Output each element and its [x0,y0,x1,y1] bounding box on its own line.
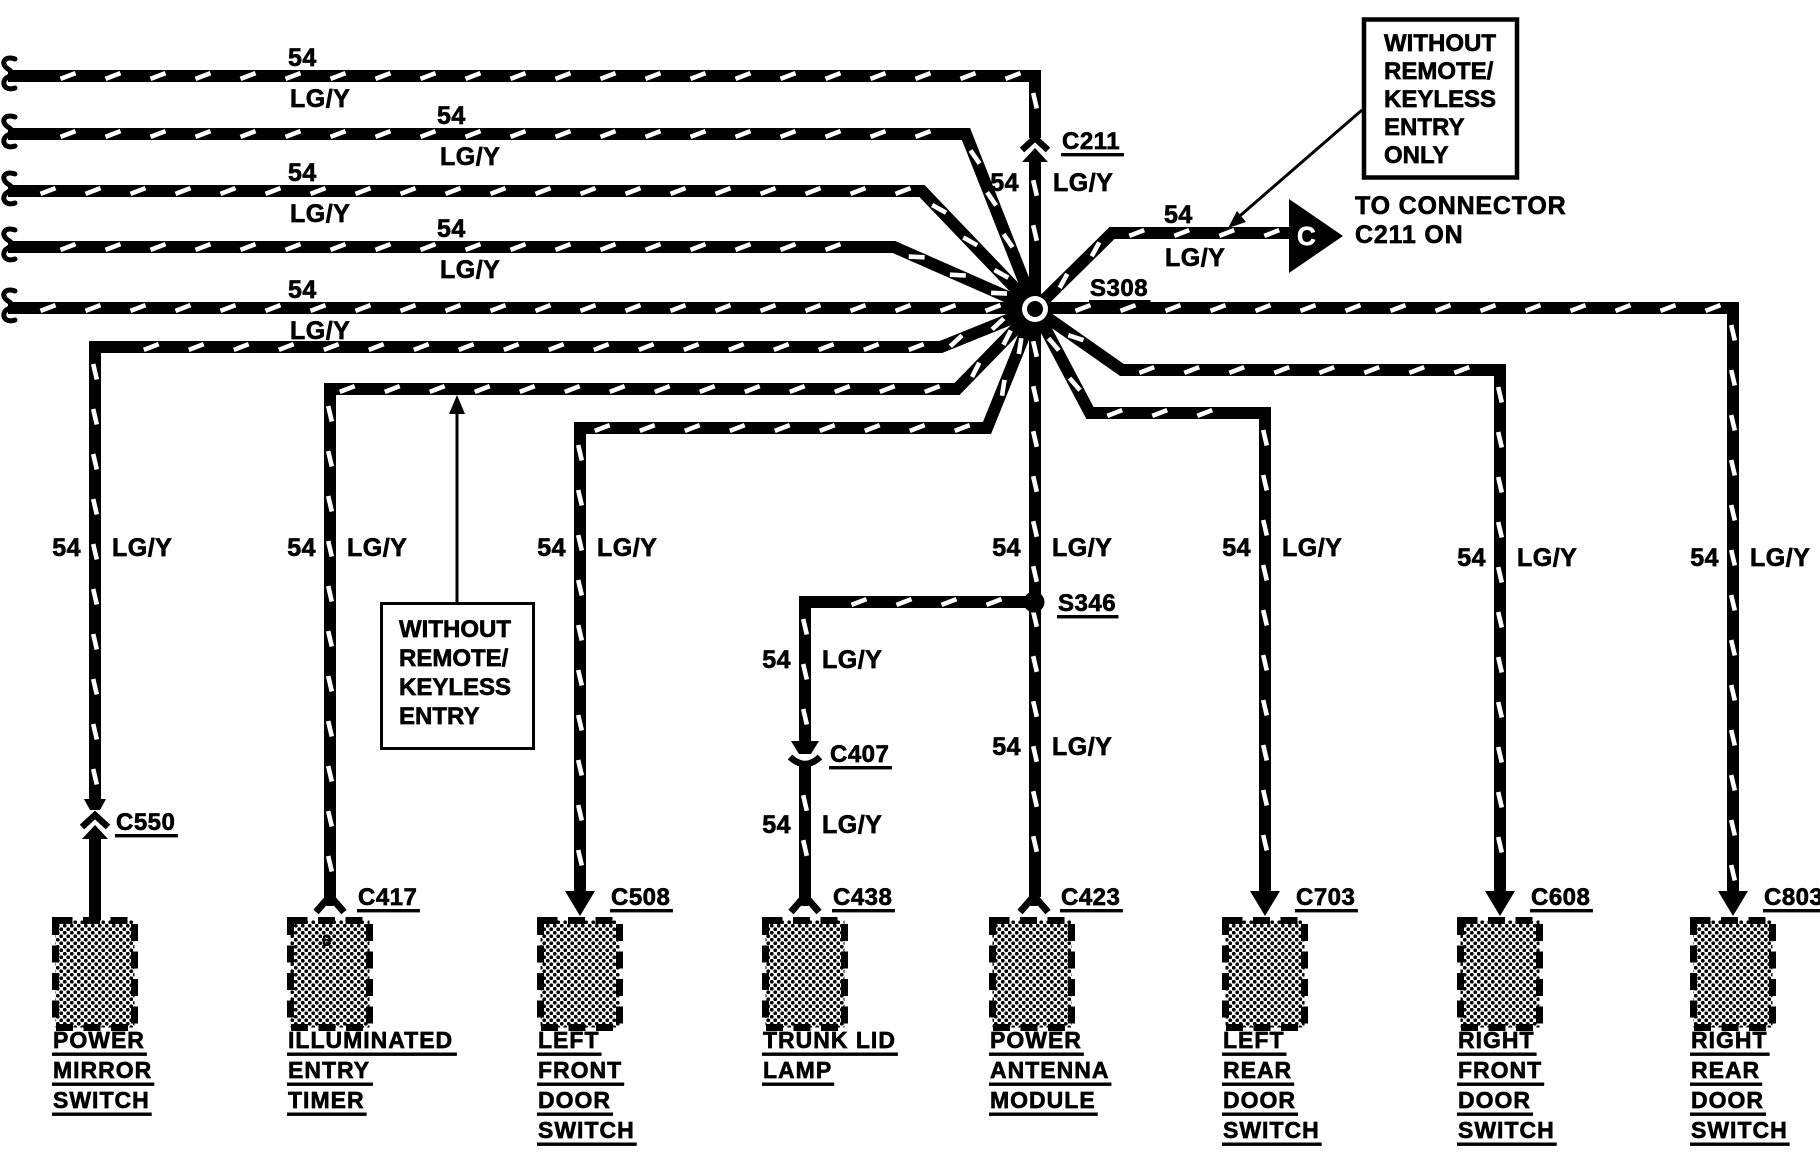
connector C608 label [1530,884,1593,912]
svg-text:C608: C608 [1531,884,1590,911]
component box: ILLUMINATED ENTRY TIMER [291,921,370,1028]
svg-text:MIRROR: MIRROR [53,1057,152,1083]
svg-text:POWER: POWER [53,1027,145,1053]
connector C211 (in-line, double chevron) [1022,138,1048,162]
svg-text:S346: S346 [1058,590,1116,617]
svg-text:54: 54 [537,534,566,562]
svg-text:KEYLESS: KEYLESS [399,674,511,701]
wire: vertical segment below C211 down to splice S308 [1033,158,1037,309]
connector C508 (arrow into box) [565,891,595,916]
pin number 8 on illuminated entry timer [322,931,331,950]
svg-text:LG/Y: LG/Y [1517,544,1577,572]
svg-text:C550: C550 [116,809,175,836]
svg-text:LG/Y: LG/Y [1282,534,1342,562]
svg-text:LG/Y: LG/Y [1053,169,1113,197]
svg-text:C211 ON: C211 ON [1355,221,1463,249]
svg-text:LG/Y: LG/Y [112,534,172,562]
splice S308 [1019,293,1052,326]
svg-text:54: 54 [1457,544,1486,572]
label 54 LG/Y on power antenna branch [992,534,1112,562]
wire: branch 5 LG/Y from left, y=308, through S308 to x=1733 then down to connector C803 / right rear door switch [4,290,1735,897]
component label: RIGHT FRONT DOOR SWITCH [1457,1027,1557,1146]
svg-text:ENTRY: ENTRY [1384,114,1464,141]
component label: RIGHT REAR DOOR SWITCH [1690,1027,1790,1146]
svg-text:C211: C211 [1062,128,1120,155]
label 54 LG/Y on feed wire 3 [288,159,350,228]
note box: WITHOUT REMOTE/KEYLESS ENTRY [382,604,534,749]
connector C803 label [1763,884,1820,912]
off-page connector arrow C (to connector C211) [1289,199,1343,273]
wire: S308 down to splice S346 and on to power antenna module connector C423 [1033,309,1037,897]
connector C703 (arrow into box) [1250,891,1280,916]
svg-text:C417: C417 [358,884,417,911]
label 54 LG/Y on feed wire 5 [288,276,350,345]
label 54 LG/Y on feed wire 2 [437,102,500,171]
svg-text:54: 54 [1690,544,1719,572]
svg-text:LG/Y: LG/Y [347,534,407,562]
svg-text:8: 8 [322,931,331,950]
svg-text:LG/Y: LG/Y [1052,733,1112,761]
connector C703 label [1295,884,1358,912]
svg-text:RIGHT: RIGHT [1458,1027,1535,1053]
wire: segment below C550 into power mirror switch box [89,834,101,928]
component box: LEFT REAR DOOR SWITCH [1226,921,1305,1028]
wire: branch 4 LG/Y from left, y=247, diagonal into S308 [4,229,1035,309]
svg-text:C803: C803 [1764,884,1820,911]
svg-text:LG/Y: LG/Y [822,646,882,674]
label 54 LG/Y on power antenna branch below S346 [992,733,1112,761]
label 54 LG/Y on right rear door branch [1690,544,1810,572]
svg-text:54: 54 [762,646,791,674]
svg-text:54: 54 [288,159,317,187]
svg-text:54: 54 [1164,201,1193,229]
connector C550 label [115,809,178,837]
svg-text:LG/Y: LG/Y [822,811,882,839]
svg-text:DOOR: DOOR [1691,1087,1764,1113]
splice S346 [1024,592,1045,613]
svg-text:54: 54 [437,102,466,130]
svg-text:ONLY: ONLY [1384,142,1448,169]
splice S308 label [1089,275,1151,303]
svg-text:C423: C423 [1061,884,1120,911]
connector C407 label [829,741,892,769]
component label: POWER ANTENNA MODULE [989,1027,1111,1116]
svg-text:C: C [1297,221,1316,251]
connector C508 label [610,884,673,912]
svg-text:REAR: REAR [1223,1057,1292,1083]
splice S346 label [1057,590,1119,618]
svg-text:DOOR: DOOR [538,1087,611,1113]
svg-text:54: 54 [288,276,317,304]
label 54 LG/Y on feed wire 1 [288,44,350,113]
svg-text:REMOTE/: REMOTE/ [1384,58,1494,85]
component box: TRUNK LID LAMP [766,921,845,1028]
component box: POWER ANTENNA MODULE [993,921,1072,1028]
connector C407 (in-line male/female pair) [790,741,820,764]
label 54 LG/Y on trunk branch above C407 [762,646,882,674]
component box: POWER MIRROR SWITCH [56,921,135,1028]
svg-text:54: 54 [52,534,81,562]
component label: ILLUMINATED ENTRY TIMER [287,1027,457,1116]
svg-text:C703: C703 [1296,884,1355,911]
connector C417 label [357,884,420,912]
svg-text:ENTRY: ENTRY [288,1057,370,1083]
svg-text:LEFT: LEFT [1223,1027,1285,1053]
svg-text:ANTENNA: ANTENNA [990,1057,1109,1083]
component label: LEFT FRONT DOOR SWITCH [537,1027,637,1146]
connector C417 (crow-foot) [316,896,344,912]
svg-text:54: 54 [992,733,1021,761]
svg-text:LG/Y: LG/Y [1750,544,1810,572]
svg-text:54: 54 [437,215,466,243]
svg-text:SWITCH: SWITCH [1458,1117,1555,1143]
wire: segment below C407 down to trunk lid lamp connector C438 [803,763,807,897]
leader arrow from note box to wire 54 LG/Y [1228,110,1362,228]
svg-text:LAMP: LAMP [763,1057,832,1083]
svg-text:54: 54 [990,169,1019,197]
svg-text:TRUNK LID: TRUNK LID [763,1027,896,1053]
svg-text:LG/Y: LG/Y [290,317,350,345]
svg-text:ILLUMINATED: ILLUMINATED [288,1027,453,1053]
svg-text:C508: C508 [611,884,670,911]
note box: WITHOUT REMOTE/KEYLESS ENTRY ONLY [1364,20,1517,178]
wire: branch 2 LG/Y from left, y=134, diagonal into S308 [4,116,1035,309]
connector C423 label [1060,884,1123,912]
connector C438 label [832,884,895,912]
connector C423 (crow-foot) [1020,896,1048,912]
wire: S308 up-right to off-page arrow C (to connector C211) [1035,230,1289,309]
svg-text:C407: C407 [830,741,889,768]
svg-text:SWITCH: SWITCH [538,1117,635,1143]
label 54 LG/Y on left front door branch [537,534,657,562]
svg-text:SWITCH: SWITCH [1691,1117,1788,1143]
component box: RIGHT REAR DOOR SWITCH [1694,921,1773,1028]
svg-text:LG/Y: LG/Y [1165,244,1225,272]
wire: S308 to right front door switch, via y=370 then down x=1500 to connector C608 [1035,309,1502,895]
wire: S308 to power mirror switch, via y=347 then down x=95 through connector C550 [93,309,1035,800]
svg-text:C438: C438 [833,884,892,911]
connector C438 (crow-foot) [791,896,819,912]
svg-text:DOOR: DOOR [1458,1087,1531,1113]
svg-text:54: 54 [287,534,316,562]
svg-text:ENTRY: ENTRY [399,703,479,730]
svg-text:LG/Y: LG/Y [290,85,350,113]
svg-text:S308: S308 [1090,275,1148,302]
svg-text:54: 54 [992,534,1021,562]
svg-text:SWITCH: SWITCH [53,1087,150,1113]
label 54 LG/Y on illuminated entry timer branch [287,534,407,562]
svg-text:LG/Y: LG/Y [440,256,500,284]
label 54 LG/Y on off-page arrow wire [1164,201,1225,272]
svg-text:LG/Y: LG/Y [290,200,350,228]
wire: S346 branch left y=602 then down x=805 to inline connector C407 [803,599,1034,741]
svg-text:TO CONNECTOR: TO CONNECTOR [1355,192,1566,220]
connector C211 label [1061,128,1124,156]
svg-text:SWITCH: SWITCH [1223,1117,1320,1143]
svg-text:TIMER: TIMER [288,1087,365,1113]
label 54 LG/Y on power mirror branch [52,534,172,562]
svg-text:54: 54 [1222,534,1251,562]
connector C803 (arrow into box) [1718,891,1748,916]
svg-text:MODULE: MODULE [990,1087,1096,1113]
svg-text:LG/Y: LG/Y [597,534,657,562]
label TO CONNECTOR C211 ON [1355,192,1566,249]
component label: LEFT REAR DOOR SWITCH [1222,1027,1322,1146]
component label: POWER MIRROR SWITCH [52,1027,154,1116]
wire: S308 to left rear door switch, via y=413 then down x=1265 to connector C703 [1035,309,1267,895]
label 54 LG/Y on left rear door branch [1222,534,1342,562]
connector C608 (arrow into box) [1485,891,1515,916]
svg-text:REMOTE/: REMOTE/ [399,645,509,672]
svg-text:54: 54 [288,44,317,72]
wire: S308 to left front door switch, via y=428 then down x=580 to connector C508 [578,309,1035,895]
svg-text:54: 54 [762,811,791,839]
svg-text:KEYLESS: KEYLESS [1384,86,1496,113]
svg-text:POWER: POWER [990,1027,1082,1053]
component box: RIGHT FRONT DOOR SWITCH [1461,921,1540,1028]
leader arrow from note box up to illuminated entry timer wire [449,395,465,602]
label 54 LG/Y on feed wire 4 [437,215,500,284]
wire: S308 to illuminated entry timer, via y=389 then down x=330 to connector C417 [328,309,1035,897]
label 54 LG/Y on C211 drop wire [990,169,1113,197]
svg-text:LG/Y: LG/Y [440,143,500,171]
svg-text:WITHOUT: WITHOUT [399,616,511,643]
svg-text:LEFT: LEFT [538,1027,600,1053]
svg-text:RIGHT: RIGHT [1691,1027,1768,1053]
label 54 LG/Y on trunk branch below C407 [762,811,882,839]
svg-text:LG/Y: LG/Y [1052,534,1112,562]
connector C550 (in-line, double chevron) [82,799,108,839]
label 54 LG/Y on right front door branch [1457,544,1577,572]
svg-text:FRONT: FRONT [538,1057,622,1083]
svg-text:DOOR: DOOR [1223,1087,1296,1113]
svg-text:WITHOUT: WITHOUT [1384,30,1496,57]
svg-text:FRONT: FRONT [1458,1057,1542,1083]
component label: TRUNK LID LAMP [762,1027,898,1086]
wire: branch 3 LG/Y from left, y=191, diagonal into S308 [4,173,1035,309]
svg-text:REAR: REAR [1691,1057,1760,1083]
component box: LEFT FRONT DOOR SWITCH [541,921,620,1028]
wire: branch 1 LG/Y from left, y=76, to corner x=1035 then down to connector C211 [4,58,1037,138]
